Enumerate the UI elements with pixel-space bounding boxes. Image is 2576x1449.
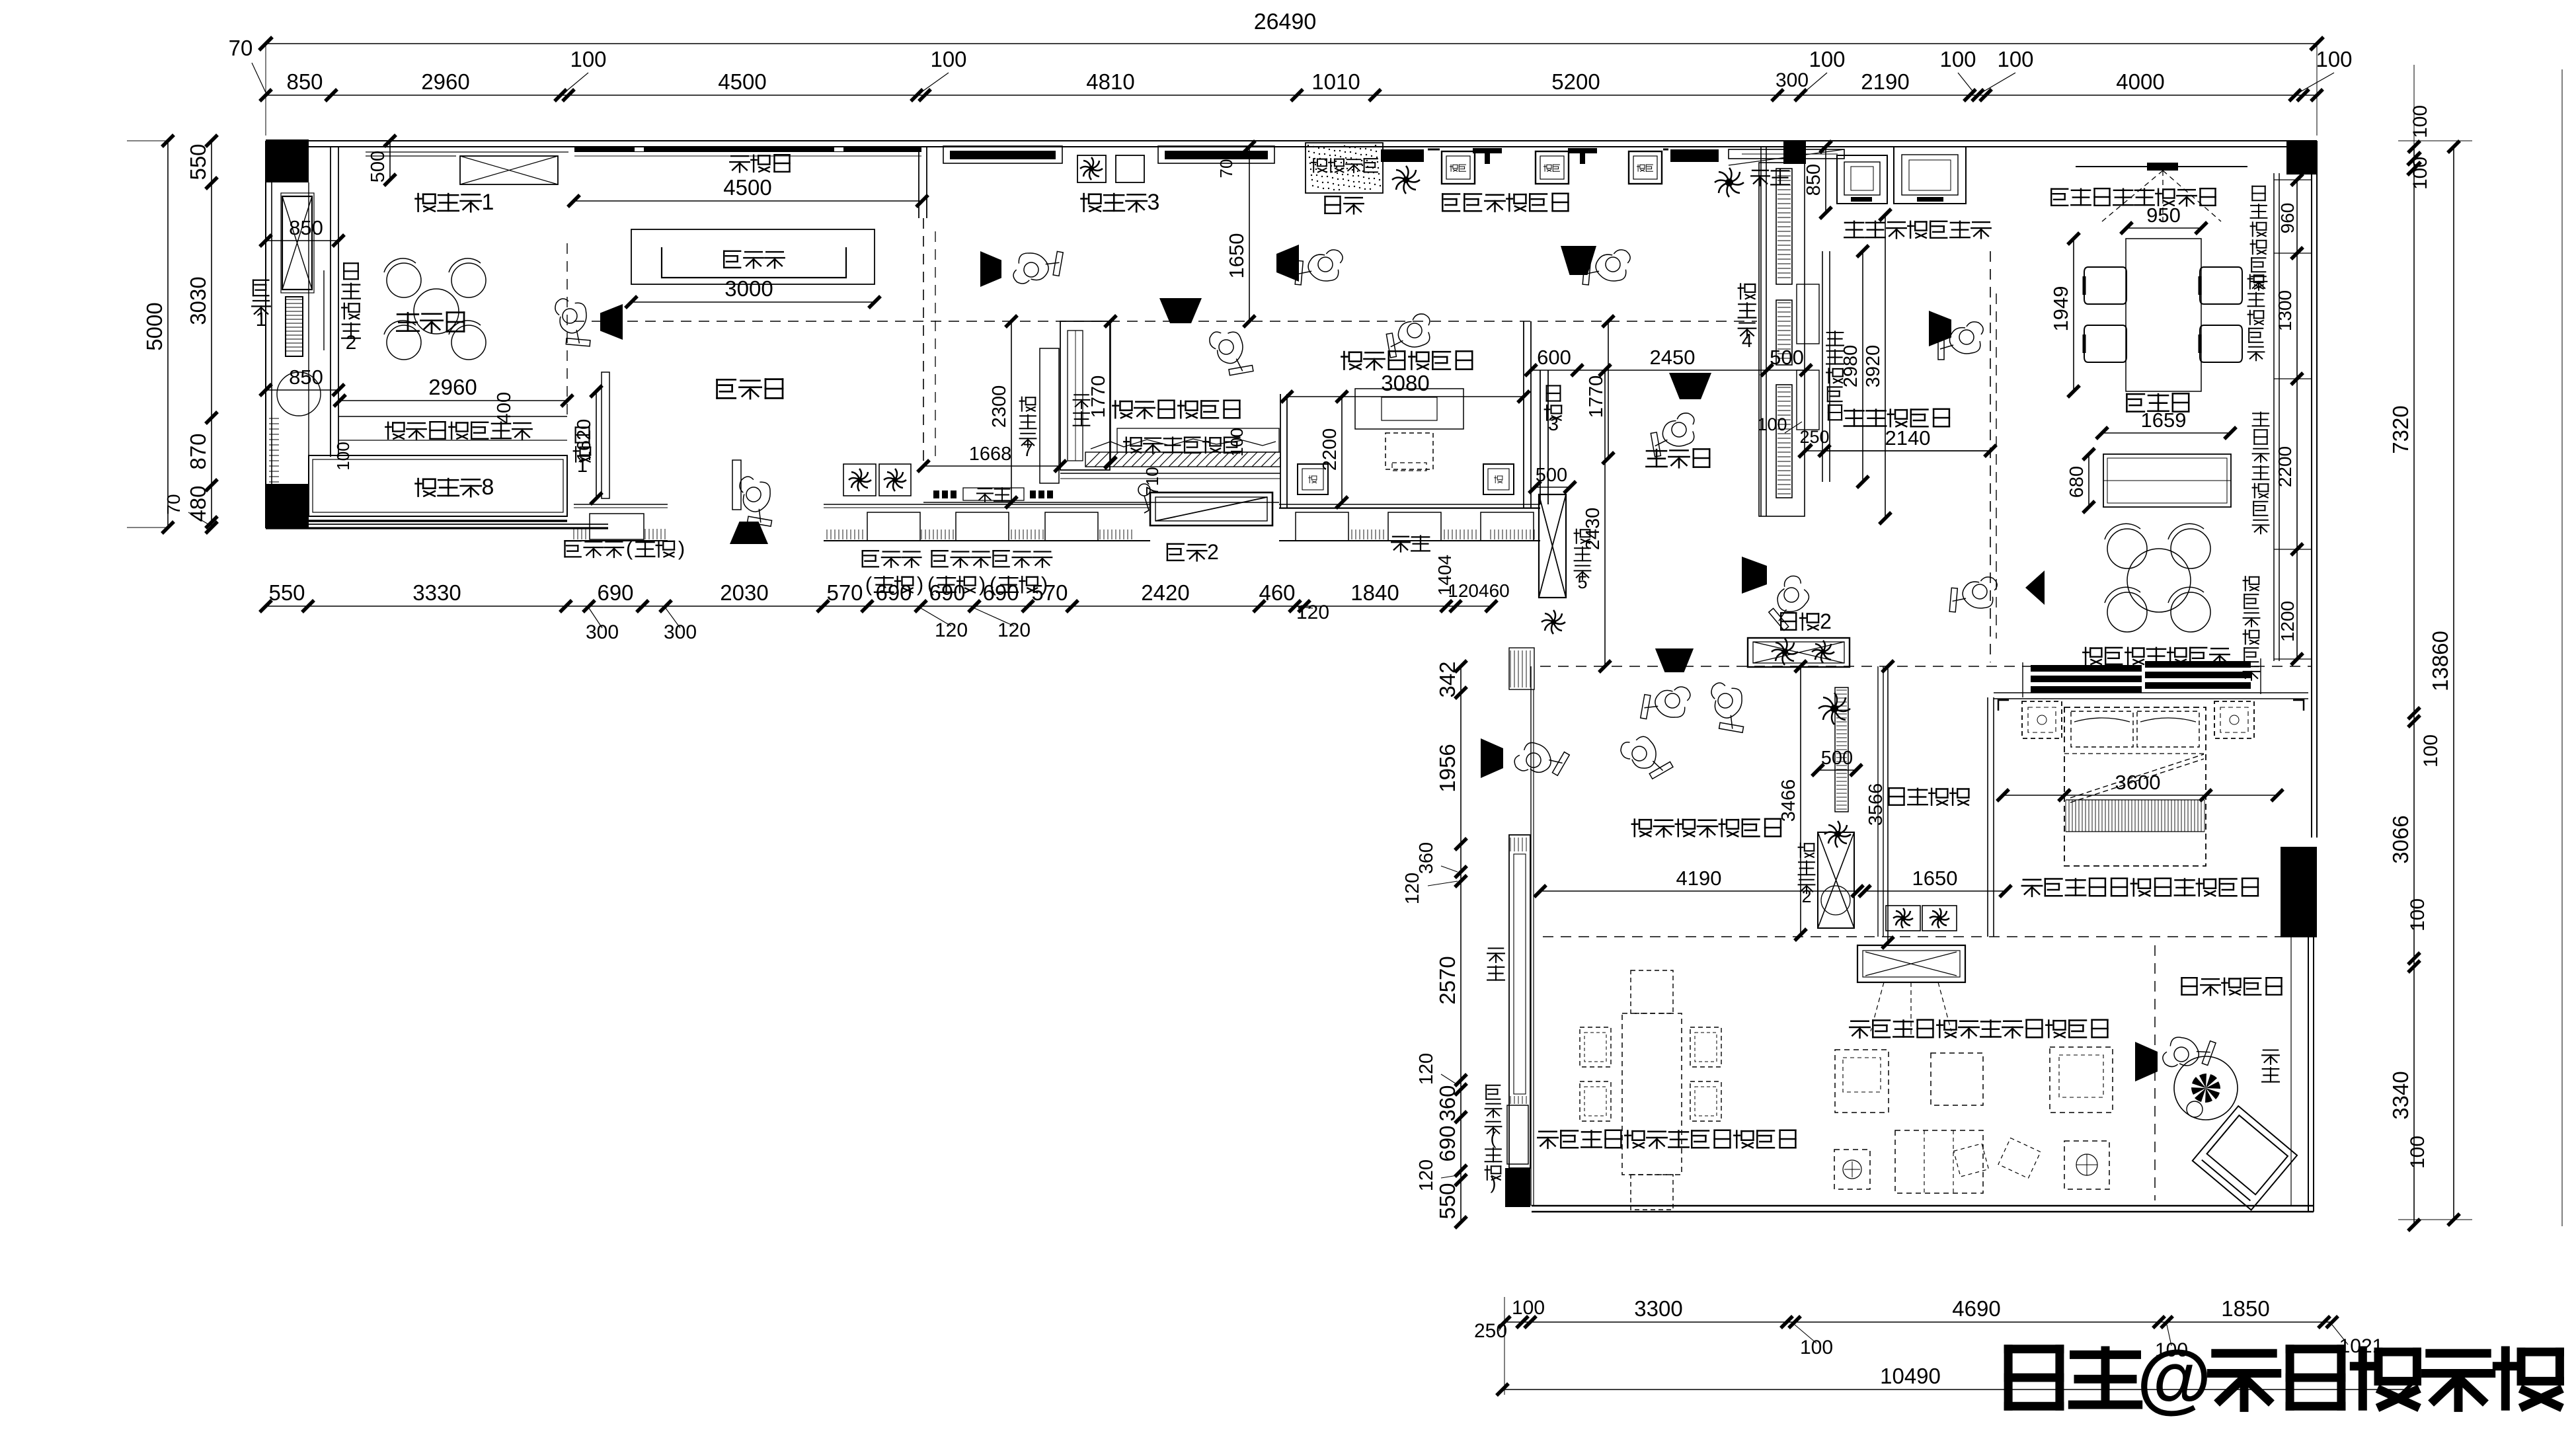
svg-text:2430: 2430: [1582, 508, 1604, 551]
svg-text:1404: 1404: [1434, 555, 1455, 596]
svg-text:300: 300: [586, 621, 619, 643]
svg-text:100: 100: [1757, 414, 1787, 434]
svg-text:3000: 3000: [724, 276, 773, 301]
svg-text:690: 690: [1435, 1125, 1460, 1161]
svg-text:2140: 2140: [1885, 426, 1931, 450]
svg-text:100: 100: [333, 442, 353, 470]
svg-text:870: 870: [186, 433, 210, 469]
svg-text:1650: 1650: [1912, 867, 1958, 890]
svg-text:70: 70: [229, 36, 253, 60]
svg-text:4190: 4190: [1676, 867, 1722, 890]
svg-text:): ): [1041, 572, 1048, 596]
svg-text:3066: 3066: [2388, 815, 2413, 863]
svg-text:26490: 26490: [1254, 9, 1317, 34]
svg-text:100: 100: [930, 47, 966, 71]
svg-text:2450: 2450: [1650, 346, 1696, 369]
svg-text:2: 2: [346, 332, 357, 354]
svg-text:): ): [1491, 1173, 1497, 1193]
svg-text:550: 550: [268, 580, 305, 605]
svg-text:): ): [917, 572, 923, 596]
svg-text:120: 120: [935, 619, 968, 641]
svg-text:600: 600: [1537, 346, 1571, 369]
svg-text:@: @: [2136, 1335, 2211, 1421]
svg-text:4810: 4810: [1086, 69, 1134, 94]
svg-text:480: 480: [186, 485, 210, 522]
svg-text:3466: 3466: [1778, 779, 1799, 822]
svg-text:5000: 5000: [142, 302, 167, 350]
svg-text:1770: 1770: [1586, 375, 1607, 418]
svg-text:300: 300: [1776, 69, 1809, 91]
svg-text:7320: 7320: [2388, 405, 2413, 453]
svg-text:(: (: [865, 572, 873, 596]
svg-text:2: 2: [1207, 540, 1219, 564]
svg-text:120: 120: [1402, 873, 1423, 904]
svg-text:850: 850: [286, 69, 323, 94]
svg-text:680: 680: [2066, 466, 2088, 498]
svg-text:4000: 4000: [2116, 69, 2164, 94]
svg-text:1200: 1200: [2277, 601, 2298, 642]
svg-text:2960: 2960: [421, 69, 469, 94]
svg-text:460: 460: [1259, 580, 1295, 605]
svg-text:500: 500: [1536, 465, 1567, 486]
svg-text:570: 570: [826, 580, 863, 605]
svg-text:2: 2: [1820, 609, 1832, 633]
svg-text:1770: 1770: [1088, 375, 1109, 418]
svg-text:1659: 1659: [2141, 409, 2187, 432]
svg-text:5: 5: [1577, 572, 1587, 592]
svg-text:850: 850: [1803, 164, 1824, 196]
svg-text:(: (: [927, 572, 935, 596]
svg-text:2570: 2570: [1435, 956, 1460, 1004]
svg-text:550: 550: [186, 143, 210, 180]
svg-text:3030: 3030: [186, 276, 210, 325]
svg-text:3: 3: [1148, 190, 1160, 215]
svg-text:(: (: [990, 572, 997, 596]
svg-text:690: 690: [597, 580, 633, 605]
svg-text:2980: 2980: [1840, 345, 1861, 388]
svg-text:70: 70: [1216, 159, 1236, 178]
svg-text:2960: 2960: [428, 375, 477, 399]
svg-text:100: 100: [2316, 47, 2352, 71]
svg-text:360: 360: [1435, 1085, 1460, 1121]
svg-text:2420: 2420: [1141, 580, 1189, 605]
svg-text:4690: 4690: [1952, 1296, 2000, 1321]
svg-text:1620: 1620: [574, 419, 595, 462]
svg-text:13860: 13860: [2428, 631, 2452, 691]
svg-text:3080: 3080: [1381, 371, 1429, 395]
svg-text:3330: 3330: [412, 580, 461, 605]
svg-text:1: 1: [256, 309, 267, 331]
svg-text:3340: 3340: [2388, 1071, 2413, 1119]
svg-text:2: 2: [1801, 886, 1811, 906]
svg-text:950: 950: [2146, 204, 2181, 227]
svg-text:1956: 1956: [1435, 744, 1460, 792]
svg-text:120: 120: [1416, 1159, 1437, 1191]
svg-text:1010: 1010: [1311, 69, 1360, 94]
svg-text:(: (: [1491, 1128, 1497, 1148]
svg-text:400: 400: [494, 392, 515, 424]
svg-text:): ): [979, 572, 986, 596]
svg-text:100: 100: [1997, 47, 2033, 71]
svg-text:): ): [678, 537, 685, 560]
svg-text:2190: 2190: [1861, 69, 1909, 94]
svg-text:(: (: [626, 537, 633, 560]
svg-text:100: 100: [2420, 734, 2442, 767]
svg-text:3300: 3300: [1634, 1296, 1682, 1321]
svg-text:1650: 1650: [1225, 233, 1248, 279]
svg-text:3920: 3920: [1863, 345, 1884, 388]
svg-text:3: 3: [1548, 414, 1559, 435]
svg-text:850: 850: [289, 366, 323, 389]
svg-text:342: 342: [1435, 661, 1460, 697]
svg-text:4500: 4500: [718, 69, 766, 94]
svg-text:1949: 1949: [2049, 286, 2072, 332]
svg-text:100: 100: [570, 47, 606, 71]
svg-text:1668: 1668: [969, 444, 1012, 465]
svg-text:7: 7: [1023, 440, 1033, 460]
svg-text:100: 100: [1809, 47, 1845, 71]
svg-text:120: 120: [1416, 1053, 1437, 1085]
svg-text:120: 120: [997, 619, 1031, 641]
svg-text:850: 850: [289, 216, 323, 239]
svg-text:100: 100: [2407, 898, 2429, 931]
svg-text:300: 300: [664, 621, 697, 643]
svg-text:710: 710: [1142, 467, 1162, 495]
svg-text:960: 960: [2277, 203, 2298, 234]
svg-text:500: 500: [1770, 346, 1804, 369]
svg-text:4: 4: [1742, 331, 1752, 352]
svg-text:100: 100: [1512, 1297, 1545, 1319]
svg-text:250: 250: [1474, 1320, 1507, 1342]
svg-text:5200: 5200: [1551, 69, 1600, 94]
svg-text:2200: 2200: [2275, 446, 2295, 487]
svg-text:2300: 2300: [989, 385, 1010, 428]
svg-text:120: 120: [1296, 602, 1329, 623]
svg-text:100: 100: [2407, 1136, 2429, 1169]
svg-text:2030: 2030: [720, 580, 768, 605]
svg-text:1300: 1300: [2275, 290, 2295, 331]
svg-text:100: 100: [1800, 1337, 1833, 1358]
svg-text:8: 8: [482, 475, 494, 500]
svg-text:1850: 1850: [2221, 1296, 2269, 1321]
svg-text:3600: 3600: [2115, 771, 2161, 794]
svg-text:1840: 1840: [1350, 580, 1399, 605]
svg-text:120460: 120460: [1448, 580, 1509, 601]
svg-text:100: 100: [2409, 105, 2431, 138]
svg-text:360: 360: [1416, 842, 1437, 874]
svg-text:1: 1: [482, 190, 494, 215]
svg-text:4500: 4500: [723, 175, 771, 200]
svg-text:100: 100: [1939, 47, 1976, 71]
svg-text:10490: 10490: [1880, 1364, 1941, 1388]
svg-text:500: 500: [368, 151, 389, 182]
svg-text:550: 550: [1435, 1183, 1460, 1219]
svg-text:70: 70: [163, 494, 184, 514]
